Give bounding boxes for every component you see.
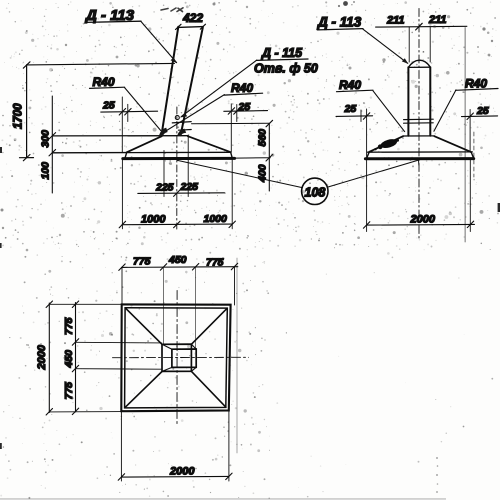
plan socket inner square — [172, 349, 196, 367]
extension top-left corner up — [121, 267, 123, 304]
extension 225 right pedestal corner — [187, 136, 189, 197]
column top shoulder — [408, 66, 430, 68]
tick at pedestal top level — [49, 133, 56, 139]
wire right haunch slope — [188, 136, 231, 152]
fillet blob left — [159, 128, 168, 136]
extension 25 second left — [360, 110, 362, 122]
plan socket outer square — [162, 344, 191, 371]
svg-text:450: 450 — [168, 254, 187, 266]
tick 1000 right — [229, 221, 235, 228]
wire slab top right view — [368, 151, 473, 153]
svg-text:25: 25 — [102, 100, 115, 112]
extension column left to dim — [408, 27, 410, 62]
socket corner connector tl — [162, 344, 172, 349]
plan diagonal tr — [192, 308, 228, 344]
fillet blob right — [177, 129, 186, 136]
wire slab right edge right view — [471, 152, 473, 158]
plan diagonal bl — [125, 372, 162, 408]
bottom faint line — [0, 498, 446, 499]
faint extension 450 right down — [195, 268, 197, 349]
extension plan top-left — [49, 303, 121, 305]
socket bottom level line to left dim — [76, 368, 162, 371]
tick 422 right — [200, 24, 205, 29]
tick left vdim 2 — [72, 339, 78, 346]
extension 1000 left — [121, 160, 123, 229]
wire slab left edge — [125, 153, 127, 159]
svg-text:775: 775 — [63, 382, 75, 400]
svg-text:R40: R40 — [465, 77, 487, 91]
socket top level line to dim — [192, 122, 270, 124]
wire slab left edge right view — [367, 152, 370, 159]
plan diagonal br — [192, 371, 226, 407]
dimension 775/450/775 left vertical line — [75, 303, 77, 412]
wire pedestal top right view — [403, 135, 434, 137]
svg-text:225: 225 — [180, 181, 199, 193]
dimension 1000-1000 line — [122, 223, 232, 226]
wire left haunch slope — [127, 136, 162, 152]
socket top level line to left dim — [76, 341, 162, 344]
socket top line in column — [172, 122, 191, 123]
wire left haunch slope right view — [369, 136, 403, 152]
svg-text:2000: 2000 — [410, 214, 436, 226]
tick below right base center — [417, 159, 420, 166]
svg-text:25: 25 — [344, 103, 357, 115]
tick 211 center — [416, 23, 423, 30]
tick 1000 left — [119, 221, 125, 228]
dimension 2000 plan bottom — [121, 475, 228, 478]
extension top-right up — [234, 267, 236, 305]
socket line 2 right view — [404, 122, 434, 124]
label R40 left of right view — [337, 78, 405, 132]
extension plan bl down — [120, 412, 122, 481]
wire pedestal top level line — [52, 135, 188, 137]
tick 25 left rv — [363, 113, 369, 120]
svg-text:560: 560 — [257, 129, 269, 147]
tick top dim 3 — [192, 264, 198, 271]
wire right haunch slope right view — [434, 136, 471, 152]
extension long left 25/2000 — [366, 109, 368, 232]
wire slab right edge — [231, 152, 233, 158]
column top edge / 422 dim line — [178, 26, 204, 29]
tick left vdim 4 — [72, 408, 78, 415]
extension right below base to 2000 — [469, 160, 471, 232]
tick 2000 rv right — [467, 221, 473, 228]
axis centerline right view dashed — [418, 9, 420, 241]
tick 25 right — [228, 108, 234, 115]
svg-text:775: 775 — [63, 317, 75, 335]
extension 25 right second — [236, 105, 238, 122]
label D-113 left — [84, 7, 177, 63]
wire base bottom edge left view — [123, 157, 235, 160]
extension plan br down — [228, 411, 230, 481]
dimension 211-211 line — [376, 25, 467, 28]
dimension 1700 vertical line — [26, 65, 28, 158]
plan outer square — [121, 304, 230, 411]
svg-text:775: 775 — [206, 257, 224, 269]
plan vertical centerline — [176, 291, 178, 425]
dimension 25 left line — [101, 110, 158, 113]
tick 2000 plan right — [226, 473, 232, 480]
svg-text:422: 422 — [182, 11, 203, 25]
ink blob on left haunch — [374, 137, 399, 150]
tick top dim 1 — [119, 264, 125, 271]
dimension 25 right line — [224, 110, 268, 113]
dimension 225-225 line — [138, 192, 225, 195]
svg-text:1000: 1000 — [204, 213, 228, 225]
extension long right 25 — [469, 110, 471, 153]
column tilted left edge — [161, 27, 178, 136]
tick top dim 4 — [231, 263, 237, 270]
tick top dim 2 — [160, 264, 166, 271]
wire slab top level line — [52, 151, 230, 154]
tick 2000 left bottom — [46, 409, 52, 416]
svg-text:450: 450 — [63, 350, 75, 369]
tick 2000 left top — [46, 301, 52, 308]
column right edge right view — [429, 67, 431, 136]
dimension 1700 level line — [27, 63, 175, 65]
faint extension 450 left down — [163, 268, 165, 344]
tick left vdim 1 — [72, 301, 78, 308]
extension column right to dim — [429, 27, 431, 62]
svg-text:R40: R40 — [339, 78, 361, 92]
tick 2000 plan left — [118, 474, 124, 481]
dimension 560/400 vertical line — [268, 124, 270, 192]
tick at slab top level — [49, 150, 56, 156]
long thin artifact line right — [464, 28, 466, 243]
socket corner connector bl — [162, 367, 172, 371]
extension line base corner left — [121, 97, 123, 152]
svg-text:25: 25 — [476, 105, 489, 117]
dashed extension below right base corner — [473, 132, 475, 177]
svg-text:Д - 113: Д - 113 — [317, 15, 362, 30]
circle mark 108 — [302, 178, 328, 204]
extension line 25 left second — [127, 104, 129, 121]
leader from circle to right view base — [328, 160, 418, 187]
artifact thin line right of plan — [236, 258, 238, 453]
column left edge right view — [407, 67, 409, 136]
label D-115 — [180, 46, 308, 118]
socket corner connector tr — [191, 344, 196, 349]
wire base bottom edge right view — [365, 157, 473, 160]
label R40 right of left view — [166, 81, 263, 131]
label R40 left — [90, 75, 161, 131]
tick 25 left — [119, 109, 125, 116]
tick 1000 center — [174, 221, 180, 228]
dimension 775/450/775 top line — [122, 266, 238, 269]
svg-text:1700: 1700 — [13, 103, 25, 129]
socket corner connector br — [191, 367, 196, 371]
svg-text:Отв. ф 50: Отв. ф 50 — [254, 62, 318, 76]
plan diagonal tl — [125, 308, 162, 344]
right edge tick — [498, 203, 500, 212]
tick 422 left — [176, 24, 182, 29]
tick 560/400 — [266, 155, 273, 162]
label D-113 right — [317, 15, 408, 64]
svg-text:225: 225 — [155, 182, 174, 194]
tick 2000 rv left — [363, 222, 369, 229]
left edge marks — [0, 147, 2, 153]
dimension 300/100 stack line — [51, 96, 53, 193]
dimension 1700 bottom tick — [20, 157, 34, 159]
axis centerline column/base dashed — [176, 107, 178, 229]
tick 25 right rv — [467, 113, 473, 120]
tick 225 center — [174, 190, 180, 197]
extension base right corner — [230, 104, 232, 152]
plan inner square — [125, 308, 228, 408]
extension plan bottom-left — [49, 411, 121, 413]
leader from left view base to circle 108 — [177, 160, 302, 187]
dimension 2000 plan left vertical — [48, 303, 50, 413]
column tilted right edge — [181, 28, 203, 136]
dimension 2000 right view line — [367, 223, 475, 226]
socket lower line in column — [178, 129, 191, 132]
svg-text:Д - 115: Д - 115 — [261, 46, 303, 60]
socket line 1 right view — [404, 118, 434, 120]
svg-text:2000: 2000 — [36, 344, 48, 370]
svg-text:R40: R40 — [231, 81, 253, 95]
top specks cluster — [343, 1, 348, 6]
svg-text:2000: 2000 — [169, 466, 195, 478]
svg-text:R40: R40 — [93, 75, 115, 89]
extension 225 left — [163, 151, 165, 197]
tick left vdim 3 — [72, 365, 78, 372]
noise smudge above 422 — [161, 8, 183, 12]
plan horizontal centerline — [113, 356, 249, 358]
label R40 right of right view — [434, 77, 498, 132]
extension 1000 right — [231, 159, 233, 229]
base bottom level extension right — [235, 157, 271, 159]
svg-text:100: 100 — [40, 162, 52, 180]
hole mark in column — [175, 116, 179, 120]
svg-text:775: 775 — [133, 256, 151, 268]
column top dome — [409, 60, 431, 67]
